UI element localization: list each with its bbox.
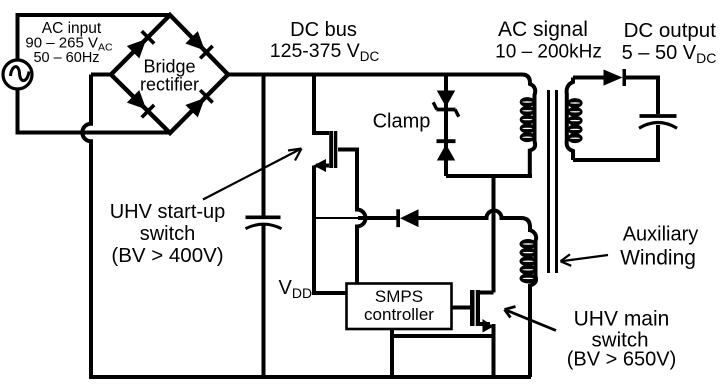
clamp branch wire	[444, 76, 448, 176]
source wire with arrow	[316, 164, 329, 168]
annotation arrow to auxiliary winding	[561, 254, 609, 265]
wire aux feed to winding with hop over drain line	[417, 211, 530, 233]
svg-text:Winding: Winding	[620, 247, 696, 270]
gate bar	[334, 131, 338, 168]
gate wire with hop, down to controller top	[338, 150, 366, 284]
bus capacitor C1	[246, 76, 282, 377]
zener diode D2a (points down)	[437, 91, 455, 108]
wire left vertical with hop over AC wire	[82, 75, 91, 378]
channel bar	[476, 290, 480, 326]
svg-text:50 – 60Hz: 50 – 60Hz	[33, 50, 99, 66]
svg-text:controller: controller	[364, 305, 434, 324]
AC source V1	[3, 60, 32, 89]
drain wire	[479, 291, 494, 295]
output capacitor C2	[640, 114, 677, 118]
transistor Q2 (UHV main switch MOSFET)	[470, 290, 494, 377]
annotation arrow to start-up switch	[203, 149, 302, 200]
svg-text:UHV main: UHV main	[574, 308, 670, 331]
wire main switch drain	[492, 176, 496, 293]
svg-text:10 – 200kHz: 10 – 200kHz	[495, 42, 602, 63]
annotation arrow to main switch	[505, 307, 557, 331]
source wire with arrow	[479, 322, 490, 326]
svg-text:DC output: DC output	[624, 19, 717, 42]
svg-text:switch: switch	[140, 223, 196, 245]
diode D5 (points left)	[396, 209, 400, 227]
wire diode to output cap	[626, 78, 658, 115]
wire aux feed diode segment	[358, 216, 397, 220]
diode D3 output rectifier (points right)	[604, 70, 623, 86]
drain wire from bus	[314, 76, 329, 133]
svg-text:UHV start-up: UHV start-up	[110, 201, 226, 223]
wire bridge left vertex stub	[91, 73, 111, 77]
bridge diode D1a (upper-left, points to top vertex)	[127, 30, 156, 59]
wire AC source bottom to bridge bottom vertex	[18, 88, 171, 133]
wire DC bus	[228, 73, 522, 77]
svg-text:(BV > 650V): (BV > 650V)	[567, 349, 677, 371]
transformer core	[549, 90, 557, 273]
gate bar	[470, 290, 475, 326]
bridge diode D1d (lower-right, points to right vertex)	[185, 89, 214, 118]
bridge diode D1c (lower-left, points to bottom vertex)	[127, 90, 156, 119]
wire secondary bottom	[573, 158, 660, 162]
wire controller ground link to main switch source	[392, 334, 494, 338]
svg-text:AC signal: AC signal	[498, 18, 588, 41]
transistor Q1 (UHV start-up switch MOSFET)	[314, 76, 366, 293]
wire clamp bottom to primary bottom	[446, 176, 530, 178]
svg-text:(BV > 400V): (BV > 400V)	[111, 244, 223, 267]
diode D2b (points up)	[437, 139, 456, 143]
wire bottom ground rail	[89, 375, 531, 379]
bridge rectifier diamond	[111, 15, 228, 133]
wire controller gate output	[452, 306, 471, 310]
svg-text:Clamp: Clamp	[373, 111, 431, 133]
transformer T1 secondary winding	[567, 78, 583, 161]
svg-text:SMPS: SMPS	[375, 287, 423, 306]
transformer T1 primary winding	[520, 75, 536, 177]
wire secondary top	[573, 76, 604, 80]
transformer T1 auxiliary winding	[520, 230, 537, 377]
wire AC source top to bridge top vertex	[18, 15, 171, 61]
channel bar	[329, 131, 333, 168]
SMPS controller U1	[347, 284, 452, 330]
bridge diode D1b (upper-right, points to right vertex)	[185, 31, 214, 60]
wire controller bottom pin	[390, 329, 394, 377]
svg-text:Auxiliary: Auxiliary	[623, 224, 699, 246]
wire aux feed (thin part)	[314, 217, 360, 219]
svg-text:Bridge: Bridge	[143, 57, 195, 77]
wire VDD to controller	[312, 291, 347, 295]
svg-text:rectifier: rectifier	[140, 75, 199, 95]
svg-text:DC bus: DC bus	[290, 19, 357, 41]
